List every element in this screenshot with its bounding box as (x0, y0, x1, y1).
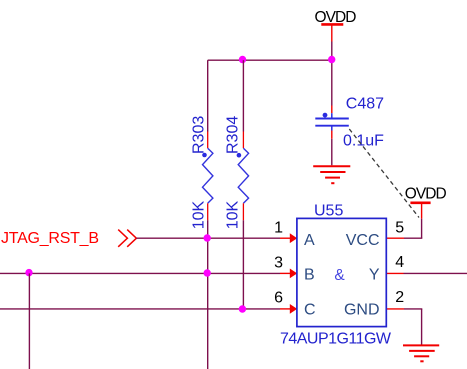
wire R303 lower vertical down through rows to bottom edge (207, 220, 209, 369)
ground (bottom right) (403, 345, 439, 361)
pin 1 stub (280, 237, 290, 239)
svg-text:C487: C487 (346, 96, 384, 113)
wire from OVDD down to junction and capacitor (331, 42, 333, 106)
svg-text:74AUP1G11GW: 74AUP1G11GW (280, 331, 392, 348)
svg-text:5: 5 (395, 219, 404, 236)
wire pin 5 horizontal (404, 237, 422, 239)
pin 3 stub (280, 272, 290, 274)
junction row6 / R304 (239, 305, 246, 312)
svg-text:1: 1 (274, 219, 283, 236)
wire OVDD right down to pin 5 (421, 219, 423, 239)
wire capacitor to ground (331, 139, 333, 166)
svg-text:Y: Y (369, 266, 380, 283)
power symbol OVDD (top) (315, 9, 357, 42)
wire row 1 (JTAG_RST_B to pin A) (136, 237, 280, 239)
pin 3 arrow (290, 269, 297, 279)
svg-text:6: 6 (274, 289, 283, 306)
svg-text:R304: R304 (224, 116, 241, 154)
wire R304 upper vertical (242, 60, 244, 131)
svg-text:2: 2 (395, 289, 404, 306)
junction at top bus / OVDD drop (328, 56, 335, 63)
junction row1 / R303 (204, 234, 211, 241)
IC U55 body (297, 218, 386, 326)
wire R303 upper vertical (207, 60, 209, 131)
ground (below C487) (313, 166, 350, 183)
svg-text:R303: R303 (191, 116, 208, 154)
svg-text:10K: 10K (191, 201, 208, 230)
svg-text:C: C (304, 301, 316, 318)
pin 5 stub (386, 237, 404, 239)
wire row 6 (0, 308, 280, 310)
svg-text:3: 3 (274, 255, 283, 272)
wire pin 4 to right edge (404, 272, 467, 274)
wire pin 2 down to ground (421, 309, 423, 346)
svg-text:B: B (304, 266, 315, 283)
wire row 3 (0, 272, 280, 274)
svg-text:OVDD: OVDD (405, 186, 447, 203)
pin 6 arrow (290, 304, 297, 314)
resistor R304 (237, 132, 249, 221)
wire left vertical to bottom edge (28, 273, 30, 369)
svg-text:&: & (334, 267, 345, 284)
svg-text:JTAG_RST_B: JTAG_RST_B (1, 230, 99, 247)
junction row3 / R303 vertical (204, 269, 211, 276)
wire R304 lower vertical to row 6 (242, 220, 244, 309)
pin 1 arrow (290, 233, 297, 243)
svg-text:VCC: VCC (346, 232, 380, 249)
pin 6 stub (280, 308, 290, 310)
junction at top bus / R304 (239, 56, 246, 63)
pin 2 stub (386, 308, 404, 310)
wire top horizontal bus (208, 59, 332, 61)
svg-text:10K: 10K (224, 201, 241, 230)
off-page connector JTAG_RST_B (1, 230, 136, 247)
junction row3 / left vertical (25, 269, 32, 276)
svg-text:U55: U55 (314, 203, 343, 220)
resistor R303 (202, 132, 213, 221)
capacitor C487 (315, 106, 349, 139)
power symbol OVDD (right) (405, 186, 447, 219)
pin 4 stub (386, 272, 403, 274)
svg-text:4: 4 (395, 254, 404, 271)
dashed association line from C487 to OVDD (349, 129, 419, 218)
svg-text:GND: GND (344, 301, 380, 318)
wire pin 2 horizontal (404, 308, 422, 310)
svg-text:A: A (304, 232, 315, 249)
